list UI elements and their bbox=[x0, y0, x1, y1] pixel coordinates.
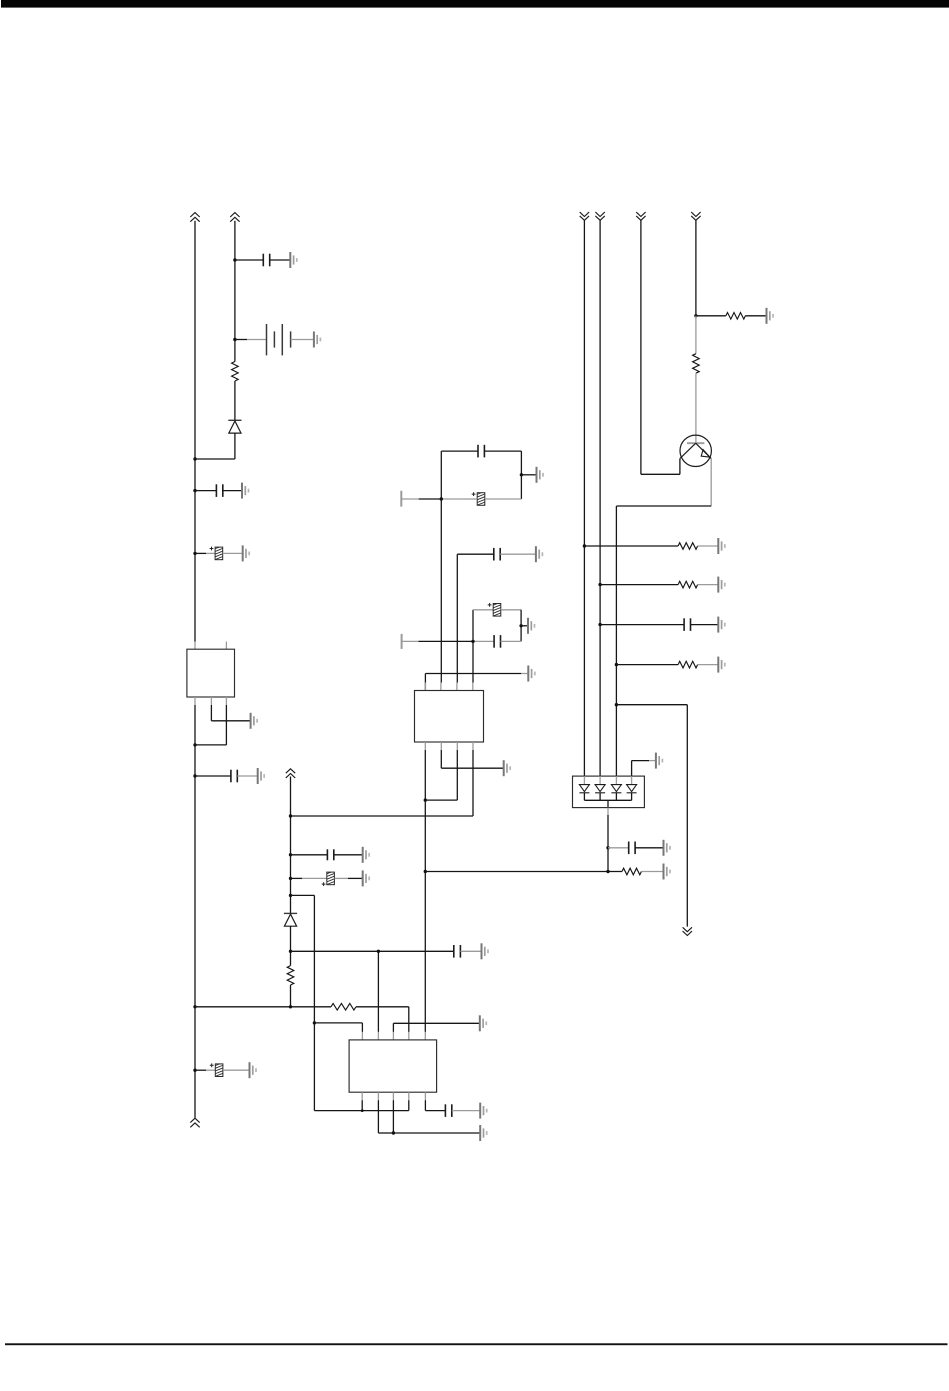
wire: D6 top feed to ground bbox=[631, 761, 633, 777]
wire: rail L1 bbox=[583, 220, 585, 776]
ground (R4) bbox=[718, 538, 725, 554]
diode D5 (array) bbox=[615, 776, 617, 785]
wire: R3 to Q1 bbox=[695, 373, 697, 443]
wire: rail L2 bbox=[599, 220, 601, 776]
off-page arrow (bottom of V9) bbox=[683, 927, 692, 935]
capacitor C4 bbox=[231, 770, 237, 783]
off-page arrow (top of rail V2) bbox=[230, 213, 239, 222]
wire: loop A right vertical bbox=[520, 451, 522, 499]
wire: R5 to ground bbox=[698, 584, 719, 586]
wire: U3 b1 to return bbox=[361, 1100, 363, 1110]
capacitor C8 bbox=[454, 945, 461, 958]
node L2 / R5 bbox=[598, 583, 601, 586]
off-page arrow (top of left rail V1) bbox=[190, 213, 199, 222]
node on V1 at C3 tap bbox=[193, 552, 196, 555]
node U3 pin2 riser top bbox=[377, 950, 380, 953]
IC U1 bbox=[187, 649, 235, 697]
wire: ground lead (U2 pin1) bbox=[521, 673, 528, 675]
wire: V3 to V4 bbox=[291, 894, 315, 896]
node V8 / output branch bbox=[615, 703, 618, 706]
page footer rule bbox=[5, 1343, 948, 1345]
ground (D6 feed) bbox=[656, 753, 663, 769]
node on V1 at C5 tap bbox=[193, 1069, 196, 1072]
wire: U1 right pin loop to V1 bbox=[225, 705, 227, 745]
node V4 / U3 pin1 link bbox=[313, 1021, 316, 1024]
ground (C3) bbox=[243, 545, 250, 561]
wire: C7 to ground bbox=[334, 877, 348, 879]
wire: D1 down and over to V1 bbox=[234, 433, 236, 459]
wire: C14 row bbox=[600, 624, 684, 626]
ground (R2) bbox=[767, 308, 774, 324]
ground (C1) bbox=[290, 252, 297, 268]
ground (R6) bbox=[718, 657, 725, 673]
ground (C15) bbox=[664, 840, 671, 856]
wire: battery row bbox=[235, 339, 247, 341]
capacitor C1 bbox=[263, 254, 269, 267]
off-page arrow (top of rail L1) bbox=[580, 212, 589, 220]
wire: loop B to ground bbox=[521, 625, 528, 627]
wire: U3 b4 to return bbox=[408, 1100, 410, 1110]
capacitor C6 bbox=[327, 849, 333, 860]
ground (C16) bbox=[480, 1103, 487, 1119]
ground (C8) bbox=[482, 943, 489, 959]
diode D1 bbox=[228, 420, 241, 433]
wire: R1 to diode D1 bbox=[234, 381, 236, 420]
capacitor C9 (loop A) bbox=[478, 445, 484, 458]
node V3 at C6 tap bbox=[289, 853, 292, 856]
wire: loop A to ground bbox=[521, 474, 536, 476]
node on V1 at C4 tap bbox=[193, 774, 196, 777]
electrolytic capacitor C5 bbox=[210, 1062, 223, 1079]
wire: C15 to ground bbox=[635, 847, 663, 849]
wire: R6 row bbox=[616, 664, 678, 666]
diode D6 (array) bbox=[631, 776, 633, 785]
wire: U2 b2 to ground bbox=[440, 750, 442, 768]
wire: R4 row bbox=[584, 545, 678, 547]
resistor R6 (horizontal) bbox=[678, 661, 698, 668]
IC U4 diode array bbox=[573, 776, 645, 808]
wire: rail V7 to U2 bbox=[472, 641, 474, 682]
wire: loop B left vertical bbox=[472, 610, 474, 642]
wire: R4 to ground bbox=[698, 545, 719, 547]
IC U2 pin stubs (bottom) bbox=[424, 742, 426, 750]
IC U1 pin stubs (bottom) bbox=[194, 697, 196, 705]
node V3 bottom bbox=[289, 1005, 292, 1008]
node V1/V2 junction bbox=[193, 457, 196, 460]
ground (U2 b2) bbox=[504, 760, 511, 776]
wire: rail V9 down bbox=[686, 705, 688, 927]
ground (C11) bbox=[536, 546, 543, 562]
wire: loop B top right bbox=[501, 609, 521, 611]
battery BT1 bbox=[267, 324, 291, 355]
wire: R2 to ground bbox=[745, 315, 766, 317]
ground (C14) bbox=[718, 617, 725, 633]
wire: R6 to ground bbox=[698, 664, 719, 666]
wire: C8 row (long) bbox=[291, 950, 454, 952]
capacitor C13 (loop B) bbox=[494, 635, 500, 648]
node T2 / loop B bbox=[471, 640, 474, 643]
ground (C5) bbox=[250, 1062, 257, 1078]
off-page arrow (top of rail L4) bbox=[691, 212, 700, 220]
node U3 b2/b3 bbox=[392, 1131, 395, 1134]
capacitor C15 bbox=[629, 842, 635, 855]
ground (loop B) bbox=[528, 618, 535, 634]
wire: rail L4 bbox=[695, 220, 697, 315]
ground (battery) bbox=[314, 332, 321, 348]
resistor R5 (horizontal) bbox=[678, 581, 698, 588]
node U2 b1/b3 bbox=[424, 798, 427, 801]
wire: U3 pin1 link bbox=[314, 1022, 362, 1024]
wire: ground lead (D6) bbox=[649, 760, 656, 762]
wire: U3 bottom-left return bbox=[314, 1110, 408, 1112]
wire: C11 row corner bbox=[457, 553, 494, 555]
wire: left rail V1 lower run bbox=[194, 705, 196, 1118]
ground (U1 pin) bbox=[251, 713, 258, 729]
wire: U3 p2 riser bbox=[377, 951, 379, 1032]
node T1 / loop A bbox=[440, 497, 443, 500]
IC U2 bbox=[415, 691, 484, 743]
node on V2 at C1 tap bbox=[233, 258, 236, 261]
resistor R10 (horizontal) bbox=[622, 868, 641, 875]
wire: C15 row bbox=[608, 847, 629, 849]
node loop B ground tap bbox=[519, 624, 522, 627]
wire: loop B bottom right bbox=[501, 640, 522, 642]
wire: C2 row bbox=[195, 490, 216, 492]
wire: Q1 left leg bbox=[679, 459, 681, 475]
ground (U3 b3 row) bbox=[480, 1125, 487, 1141]
wire: loop A top right bbox=[484, 450, 521, 452]
IC U3 bbox=[349, 1040, 437, 1092]
wire: C4 row bbox=[195, 775, 231, 777]
off-page arrow (bottom of V1) bbox=[190, 1118, 199, 1127]
electrolytic capacitor C12 (loop B) bbox=[488, 602, 501, 619]
ground (U2 pin1 row) bbox=[528, 666, 535, 682]
wire: D2 to node row bbox=[290, 926, 292, 965]
electrolytic capacitor C7 bbox=[322, 871, 335, 888]
wire: Q1 right leg to V8 bbox=[710, 459, 712, 506]
ground (C4) bbox=[258, 768, 265, 784]
resistor R8 (horizontal) bbox=[331, 1004, 356, 1011]
wire: U3 b3 down bbox=[392, 1100, 394, 1133]
ground (loop A) bbox=[537, 467, 544, 483]
node R10 feed row bbox=[424, 870, 427, 873]
off-page arrow (top of rail L3) bbox=[636, 212, 645, 220]
wire: rail V8 bbox=[615, 506, 617, 776]
wire: loop A left vertical bbox=[440, 451, 442, 499]
resistor R3 (vertical) bbox=[693, 354, 700, 374]
node U3 b1 bbox=[361, 1109, 364, 1112]
wire: array output drop bbox=[607, 800, 609, 807]
wire: loop B right vertical bbox=[520, 610, 522, 642]
resistor R2 (horizontal) bbox=[726, 313, 746, 320]
diode D2 bbox=[284, 913, 297, 926]
ground (C7) bbox=[363, 870, 370, 886]
node V3 / U2 pin4 link bbox=[289, 814, 292, 817]
wire: rail L3 to Q1 base leg bbox=[640, 220, 642, 474]
wire: C2 to ground bbox=[223, 490, 242, 492]
resistor R9 (vertical on V3) bbox=[287, 966, 294, 985]
wire: left rail V1 upper run bbox=[194, 221, 196, 642]
wire: U2 pin1 ground row bbox=[424, 674, 426, 691]
ground (R10) bbox=[664, 864, 671, 880]
diode D3 (array) bbox=[583, 776, 585, 785]
wire: R10 row bbox=[425, 871, 622, 873]
wire: rail V4 bbox=[313, 895, 315, 1110]
ground (C6) bbox=[363, 847, 370, 863]
node V1 / U1 loop bbox=[193, 743, 196, 746]
wire: C6 row bbox=[291, 854, 328, 856]
resistor R1 (vertical on V2) bbox=[232, 362, 239, 382]
node on V1 at C2 tap bbox=[193, 489, 196, 492]
wire: battery to ground bbox=[291, 339, 314, 341]
wire: U1 pin to ground row bbox=[210, 705, 212, 721]
wire: C5 row bbox=[195, 1069, 206, 1071]
terminal T1 bbox=[400, 491, 402, 507]
wire: C7 row bbox=[291, 877, 303, 879]
page header black banner bbox=[1, 0, 949, 8]
wire: rail V5 to U2 bbox=[440, 499, 442, 683]
wire: T1 lead-in bbox=[401, 498, 418, 500]
capacitor C14 bbox=[684, 618, 690, 631]
wire: array cathode bus bbox=[584, 799, 631, 801]
transistor Q1 bbox=[680, 435, 712, 466]
node V3 / V4 branch bbox=[289, 894, 292, 897]
wire: R9 to long feed bbox=[290, 985, 292, 1007]
off-page arrow (top of rail V3) bbox=[286, 769, 295, 778]
off-page arrow (top of rail L2) bbox=[595, 212, 604, 220]
ground (R5) bbox=[718, 577, 725, 593]
wire: C3 row bbox=[195, 552, 206, 554]
node loop A ground tap bbox=[520, 473, 523, 476]
node L2 / C14 bbox=[598, 623, 601, 626]
resistor R4 (horizontal) bbox=[678, 543, 698, 550]
wire: C16 to ground bbox=[452, 1110, 480, 1112]
wire: C4 to ground bbox=[237, 775, 257, 777]
wire: U3 b5 to C16 bbox=[424, 1100, 426, 1110]
node diode array output bbox=[606, 870, 609, 873]
ground (U3 p3 row) bbox=[480, 1015, 487, 1031]
wire: T2 lead-in bbox=[402, 640, 419, 642]
wire: loop B top left bbox=[473, 609, 493, 611]
wire: U2 b3 loop to b1 bbox=[456, 750, 458, 800]
wire: U3 p3 ground row bbox=[392, 1023, 394, 1032]
wire: C1 row bbox=[235, 259, 263, 261]
capacitor C11 bbox=[494, 548, 500, 561]
wire: R10 to ground bbox=[641, 871, 663, 873]
wire: C11 to ground bbox=[500, 553, 536, 555]
electrolytic capacitor C10 (loop A) bbox=[472, 491, 485, 508]
node V3 at C8 feed bbox=[289, 950, 292, 953]
wire: loop A top bbox=[441, 450, 478, 452]
node L1 / R4 bbox=[583, 544, 586, 547]
diode D4 (array) bbox=[599, 776, 601, 785]
capacitor C16 bbox=[445, 1104, 451, 1117]
wire: R2 row bbox=[696, 315, 726, 317]
node on V2 at battery tap bbox=[233, 338, 236, 341]
node V3 at C7 tap bbox=[289, 877, 292, 880]
wire: L4 to R3 bbox=[695, 316, 697, 354]
electrolytic capacitor C3 bbox=[210, 546, 223, 563]
wire: rail V3 upper run bbox=[290, 777, 292, 914]
node L4 / R2 bbox=[694, 314, 697, 317]
node array output / C15 bbox=[606, 846, 609, 849]
wire: output branch to V9 bbox=[616, 704, 687, 706]
IC U3 pin stubs (bottom) bbox=[361, 1092, 363, 1100]
wire: C14 to ground bbox=[691, 624, 719, 626]
wire: R8 to U3 pin riser bbox=[356, 1006, 409, 1008]
wire: U2 pin4 link row bbox=[291, 815, 474, 817]
terminal T2 bbox=[401, 634, 403, 649]
IC U3 pin stubs (top) bbox=[361, 1032, 363, 1040]
wire: C5 to ground bbox=[223, 1069, 250, 1071]
capacitor C2 bbox=[216, 484, 222, 497]
IC U1 pin stubs (top) bbox=[194, 642, 196, 650]
wire: rail V2 from arrow to resistor R1 bbox=[234, 221, 236, 362]
node on V1 long bottom feed bbox=[193, 1005, 196, 1008]
wire: rail V6 to U2 bbox=[456, 554, 458, 682]
wire: C3 to ground bbox=[223, 552, 243, 554]
wire: loop A bottom left bbox=[441, 498, 468, 500]
wire: loop B bottom left bbox=[473, 640, 494, 642]
IC U2 pin stubs (top) bbox=[424, 683, 426, 691]
wire: U2 pin b1 long rail down to U3 bbox=[424, 750, 426, 1032]
wire: R5 row bbox=[600, 584, 678, 586]
wire: b3 row to ground bbox=[393, 1132, 480, 1134]
wire: long horizontal feed to R8 bbox=[195, 1006, 331, 1008]
ground (C2) bbox=[242, 483, 249, 499]
node V8 / R6 bbox=[615, 663, 618, 666]
wire: C1 to ground bbox=[270, 259, 291, 261]
wire: U3 b2 down bbox=[377, 1100, 379, 1133]
wire: loop A bottom right bbox=[468, 498, 477, 500]
wire: C8 to ground bbox=[460, 950, 481, 952]
wire: C6 to ground bbox=[334, 854, 363, 856]
